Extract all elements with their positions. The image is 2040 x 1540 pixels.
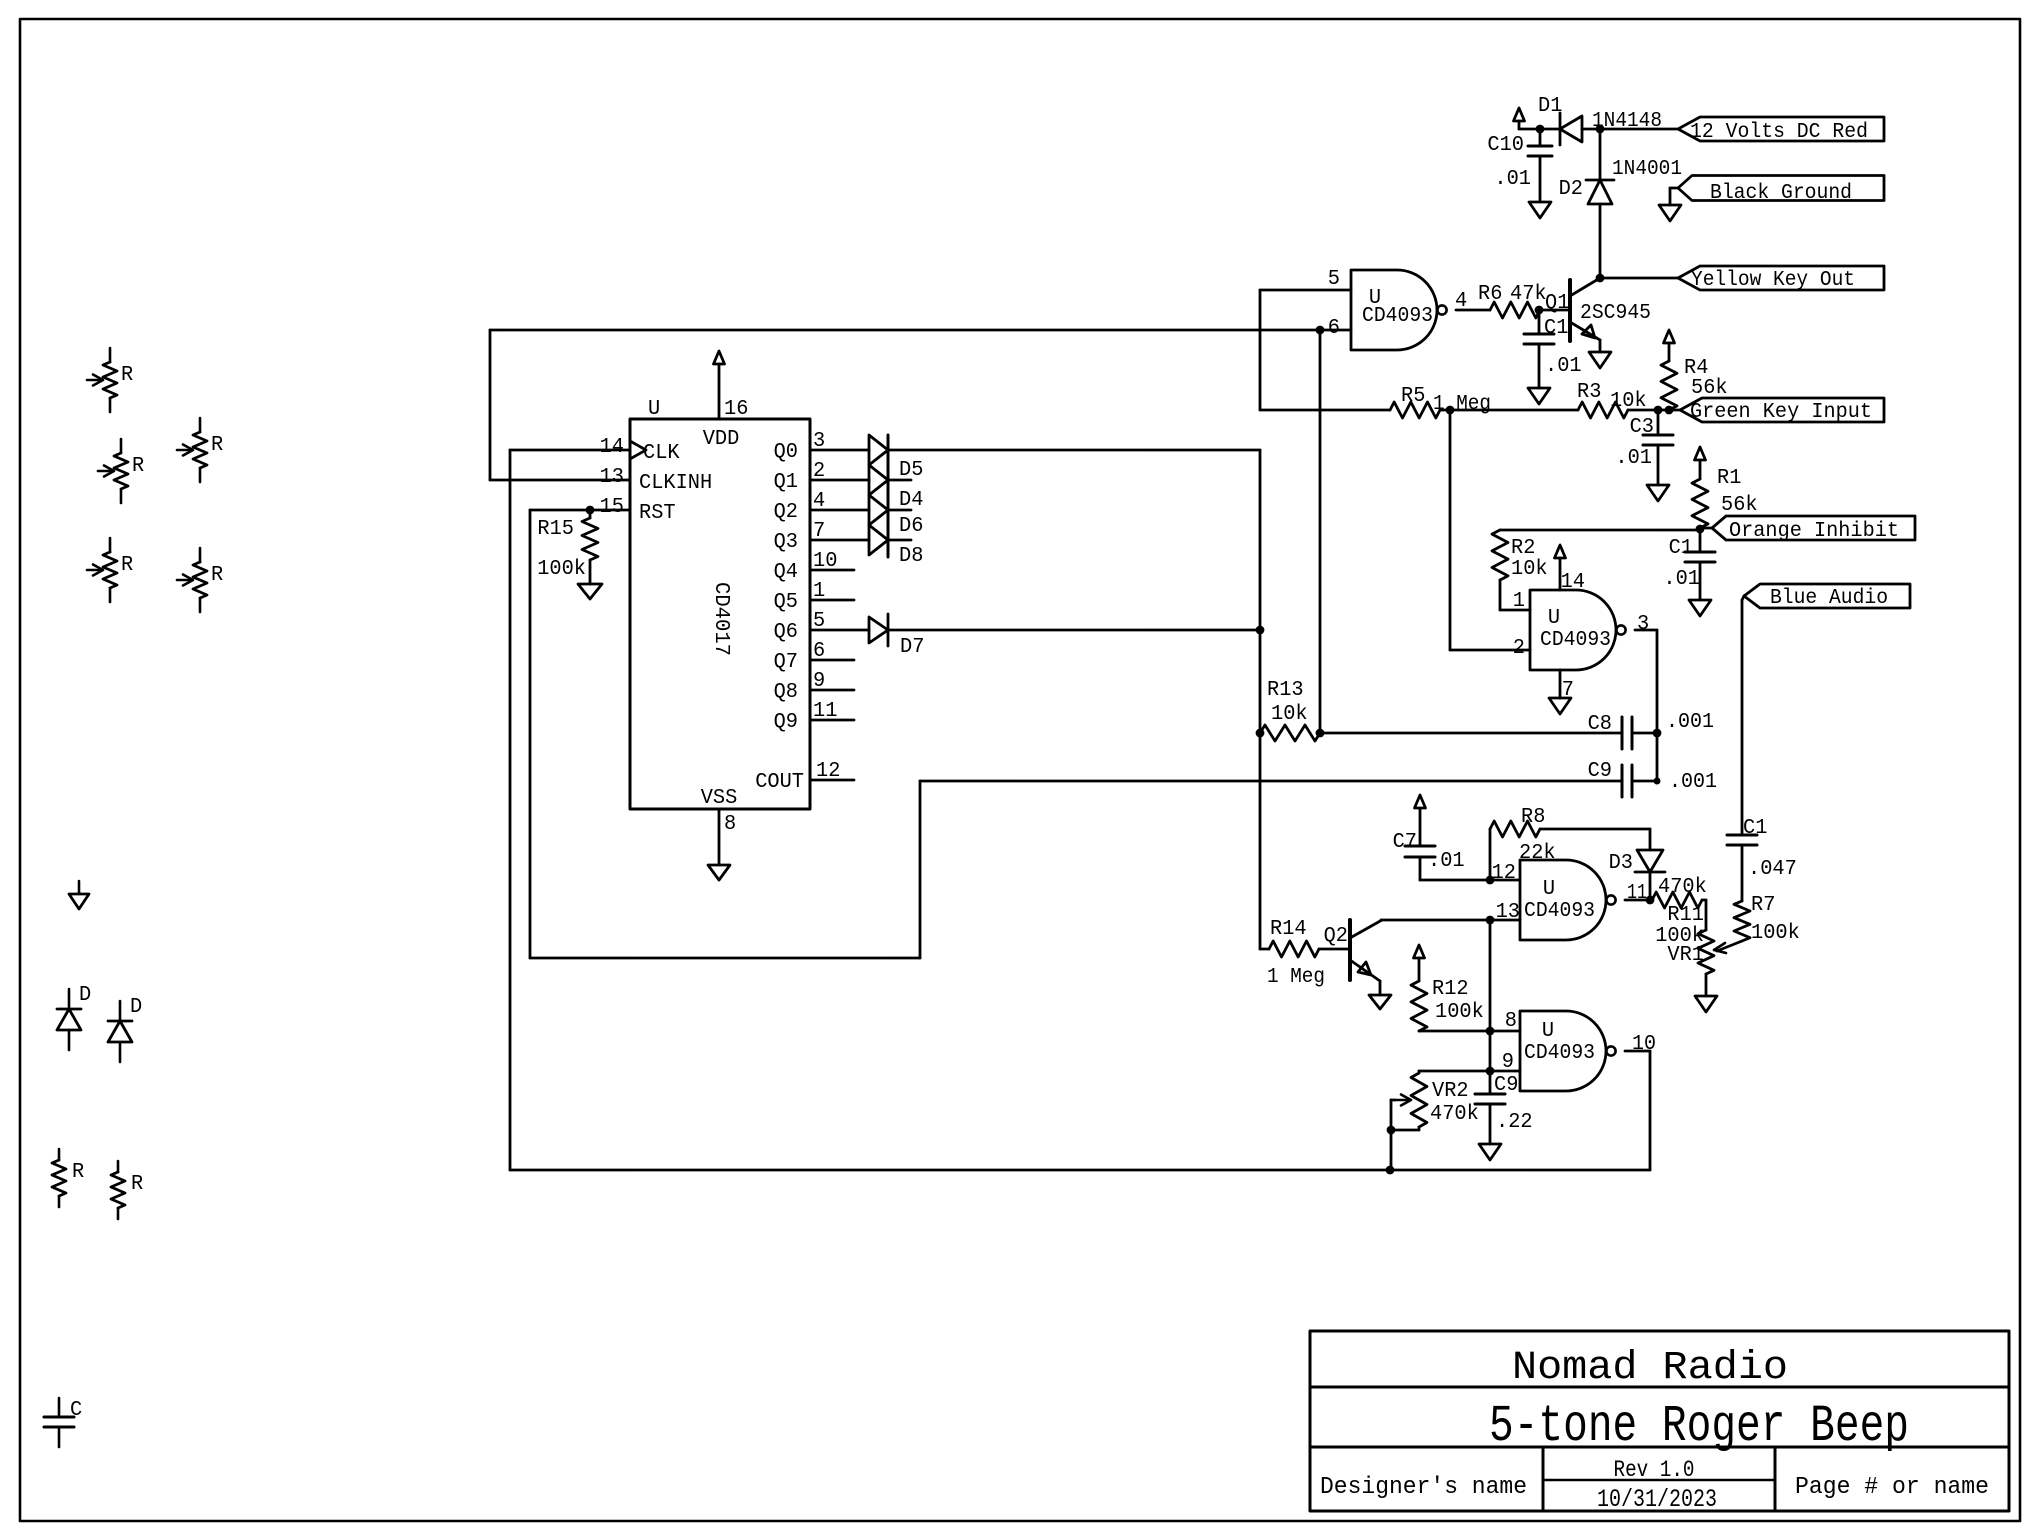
svg-text:R: R — [131, 1173, 144, 1196]
svg-text:CD4093: CD4093 — [1540, 629, 1611, 652]
svg-text:D2: D2 — [1559, 178, 1583, 201]
svg-text:R7: R7 — [1751, 894, 1775, 917]
svg-text:13: 13 — [600, 466, 624, 489]
svg-text:D1: D1 — [1538, 95, 1562, 118]
svg-text:Q0: Q0 — [774, 441, 798, 464]
svg-text:C8: C8 — [1588, 713, 1612, 736]
svg-text:CD4017: CD4017 — [709, 582, 732, 656]
svg-text:D4: D4 — [899, 489, 923, 512]
svg-text:8: 8 — [1505, 1010, 1517, 1033]
svg-text:D5: D5 — [899, 459, 923, 482]
svg-text:Green Key Input: Green Key Input — [1690, 401, 1872, 424]
svg-text:.01: .01 — [1494, 168, 1531, 191]
svg-text:.001: .001 — [1666, 711, 1714, 734]
svg-text:470k: 470k — [1658, 876, 1707, 899]
svg-text:VSS: VSS — [701, 787, 738, 810]
svg-text:Q1: Q1 — [774, 471, 798, 494]
svg-text:COUT: COUT — [755, 771, 804, 794]
svg-text:5: 5 — [1328, 268, 1340, 291]
svg-text:CD4093: CD4093 — [1362, 305, 1433, 328]
svg-text:Nomad Radio: Nomad Radio — [1512, 1346, 1788, 1391]
svg-text:2SC945: 2SC945 — [1580, 302, 1651, 325]
svg-text:D8: D8 — [899, 545, 923, 568]
svg-text:10/31/2023: 10/31/2023 — [1597, 1485, 1717, 1514]
svg-text:C: C — [70, 1399, 82, 1422]
svg-text:6: 6 — [1328, 317, 1340, 340]
svg-text:C1: C1 — [1743, 817, 1767, 840]
svg-text:5-tone Roger Beep: 5-tone Roger Beep — [1489, 1397, 1909, 1456]
svg-text:100k: 100k — [1435, 1001, 1484, 1024]
svg-text:CLK: CLK — [643, 442, 680, 465]
svg-text:R: R — [72, 1161, 85, 1184]
svg-text:1 Meg: 1 Meg — [1433, 393, 1491, 416]
svg-text:CD4093: CD4093 — [1524, 1042, 1595, 1065]
svg-text:2: 2 — [1513, 637, 1525, 660]
svg-text:16: 16 — [724, 398, 748, 421]
svg-text:RST: RST — [639, 502, 676, 525]
svg-text:CD4093: CD4093 — [1524, 900, 1595, 923]
svg-text:CLKINH: CLKINH — [639, 472, 712, 495]
svg-text:.01: .01 — [1428, 850, 1465, 873]
svg-text:Q6: Q6 — [774, 621, 798, 644]
svg-text:100k: 100k — [537, 558, 586, 581]
svg-text:R: R — [211, 434, 224, 457]
svg-text:470k: 470k — [1430, 1103, 1479, 1126]
svg-text:10k: 10k — [1610, 390, 1647, 413]
svg-text:VR1: VR1 — [1667, 944, 1704, 967]
svg-text:3: 3 — [1637, 613, 1649, 636]
svg-text:R: R — [121, 364, 134, 387]
svg-text:C1: C1 — [1544, 317, 1568, 340]
svg-text:R13: R13 — [1267, 679, 1304, 702]
svg-text:14: 14 — [1561, 571, 1585, 594]
svg-text:1N4148: 1N4148 — [1592, 110, 1662, 133]
svg-text:R11: R11 — [1667, 904, 1704, 927]
svg-text:.01: .01 — [1663, 568, 1700, 591]
svg-text:100k: 100k — [1751, 922, 1800, 945]
svg-text:R: R — [132, 455, 145, 478]
svg-text:Orange Inhibit: Orange Inhibit — [1729, 520, 1899, 543]
svg-text:Black Ground: Black Ground — [1710, 182, 1852, 205]
svg-text:10k: 10k — [1271, 703, 1308, 726]
svg-text:Q3: Q3 — [774, 531, 798, 554]
svg-text:15: 15 — [600, 496, 624, 519]
svg-text:.01: .01 — [1615, 447, 1652, 470]
svg-text:C1: C1 — [1669, 537, 1693, 560]
svg-text:1N4001: 1N4001 — [1612, 158, 1682, 181]
svg-text:22k: 22k — [1519, 842, 1556, 865]
svg-text:Q8: Q8 — [774, 681, 798, 704]
svg-text:R15: R15 — [537, 518, 574, 541]
svg-text:1 Meg: 1 Meg — [1267, 966, 1325, 989]
svg-text:Q2: Q2 — [774, 501, 798, 524]
svg-text:Q9: Q9 — [774, 711, 798, 734]
svg-text:.01: .01 — [1545, 355, 1582, 378]
svg-text:Q1: Q1 — [1545, 292, 1569, 315]
svg-text:R6: R6 — [1478, 283, 1502, 306]
svg-text:U: U — [1543, 878, 1555, 901]
svg-text:C10: C10 — [1487, 134, 1524, 157]
svg-text:VR2: VR2 — [1432, 1080, 1469, 1103]
svg-text:Q2: Q2 — [1324, 925, 1348, 948]
svg-text:C7: C7 — [1393, 831, 1417, 854]
svg-text:11: 11 — [1627, 882, 1647, 905]
svg-text:.22: .22 — [1496, 1111, 1533, 1134]
svg-text:D7: D7 — [900, 636, 924, 659]
svg-text:R8: R8 — [1521, 806, 1545, 829]
svg-text:D6: D6 — [899, 515, 923, 538]
svg-text:56k: 56k — [1721, 494, 1758, 517]
svg-text:R1: R1 — [1717, 467, 1741, 490]
svg-text:Rev 1.0: Rev 1.0 — [1614, 1457, 1695, 1483]
svg-text:D3: D3 — [1609, 852, 1633, 875]
svg-text:U: U — [1548, 607, 1560, 630]
svg-text:R14: R14 — [1270, 918, 1307, 941]
svg-text:Designer's name: Designer's name — [1320, 1474, 1527, 1501]
svg-text:Q4: Q4 — [774, 561, 798, 584]
svg-text:47k: 47k — [1510, 283, 1547, 306]
svg-text:C3: C3 — [1630, 416, 1654, 439]
svg-text:14: 14 — [600, 436, 624, 459]
svg-text:10k: 10k — [1511, 558, 1548, 581]
svg-text:VDD: VDD — [703, 428, 740, 451]
svg-text:D: D — [130, 996, 142, 1019]
svg-text:R12: R12 — [1432, 978, 1469, 1001]
svg-text:C9: C9 — [1588, 760, 1612, 783]
svg-text:.001: .001 — [1669, 771, 1717, 794]
svg-text:U: U — [1542, 1020, 1554, 1043]
svg-text:R: R — [211, 564, 224, 587]
svg-text:R3: R3 — [1577, 381, 1601, 404]
svg-text:R: R — [121, 554, 134, 577]
svg-text:10: 10 — [1632, 1033, 1656, 1056]
svg-text:C9: C9 — [1494, 1074, 1518, 1097]
svg-text:R5: R5 — [1401, 385, 1425, 408]
svg-text:56k: 56k — [1691, 377, 1728, 400]
svg-text:Q5: Q5 — [774, 591, 798, 614]
svg-text:Page # or name: Page # or name — [1795, 1474, 1989, 1501]
svg-text:Blue Audio: Blue Audio — [1770, 587, 1888, 610]
svg-text:.047: .047 — [1748, 858, 1797, 881]
svg-text:8: 8 — [724, 813, 736, 836]
svg-text:12 Volts DC Red: 12 Volts DC Red — [1690, 121, 1868, 144]
svg-text:Yellow Key Out: Yellow Key Out — [1691, 269, 1855, 292]
svg-text:12: 12 — [1492, 862, 1516, 885]
svg-text:U: U — [648, 398, 660, 421]
svg-text:D: D — [79, 984, 91, 1007]
svg-text:Q7: Q7 — [774, 651, 798, 674]
svg-text:R2: R2 — [1511, 537, 1535, 560]
